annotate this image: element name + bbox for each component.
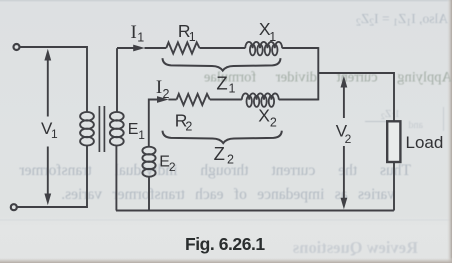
svg-text:Load: Load [406, 133, 444, 152]
svg-text:Applying current divider formu: Applying current divider formulae [204, 70, 452, 86]
svg-text:Fig. 6.26.1: Fig. 6.26.1 [185, 234, 265, 254]
svg-text:1: 1 [189, 30, 196, 44]
svg-text:E: E [128, 121, 139, 138]
svg-text:Also, I1Z1 = I2Z2: Also, I1Z1 = I2Z2 [356, 11, 448, 29]
svg-text:1: 1 [269, 30, 276, 44]
svg-text:2: 2 [185, 119, 192, 133]
svg-text:X: X [258, 105, 270, 125]
svg-text:2: 2 [270, 116, 277, 130]
svg-text:Z: Z [216, 72, 227, 93]
svg-text:2: 2 [169, 160, 176, 174]
svg-text:I: I [131, 22, 137, 43]
svg-text:I: I [156, 77, 162, 98]
svg-text:and: and [409, 120, 423, 131]
svg-text:1: 1 [51, 127, 58, 141]
svg-text:1: 1 [138, 128, 145, 142]
svg-text:Z: Z [214, 143, 225, 164]
svg-text:2: 2 [227, 152, 234, 166]
svg-text:1: 1 [137, 31, 144, 45]
svg-text:2: 2 [163, 87, 170, 101]
svg-text:1: 1 [229, 82, 236, 96]
svg-text:Thus the current through indiv: Thus the current through individual tran… [19, 162, 411, 179]
svg-text:Review Questions: Review Questions [292, 238, 418, 257]
svg-text:2: 2 [345, 132, 352, 146]
